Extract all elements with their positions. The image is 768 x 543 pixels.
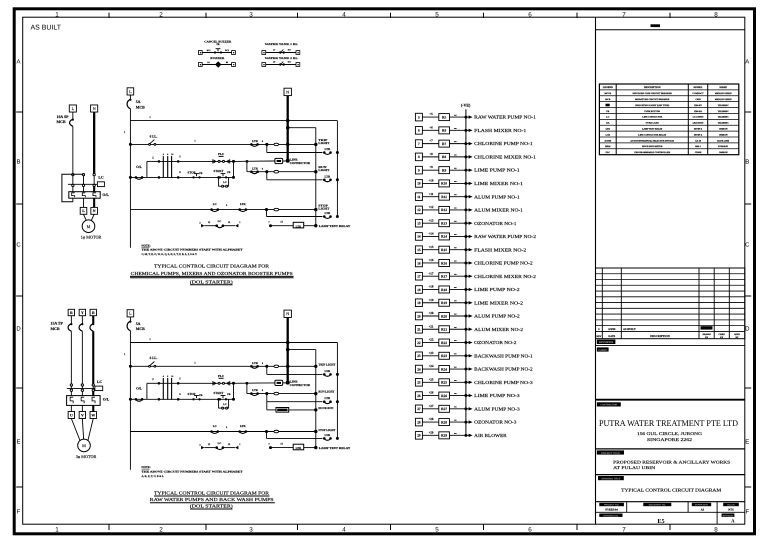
svg-text:FLASH MIXER NO-1: FLASH MIXER NO-1 [474,128,527,133]
terminal block bars [163,153,174,178]
svg-text:U: U [70,413,73,417]
LC aux contact stop light row [210,424,228,434]
svg-text:1: 1 [149,338,151,341]
control MCB 5A label [136,322,145,331]
stop lamp-test bypass wire [267,432,323,439]
svg-text:(-VE): (-VE) [461,102,471,107]
svg-text:R7: R7 [442,142,446,146]
note text [142,243,243,256]
run lamp-test bypass wire [267,172,323,180]
svg-text:15A TP: 15A TP [51,322,64,326]
LTR bypass contact run [323,174,339,181]
svg-text:HOUR RUN: HOUR RUN [318,406,334,410]
svg-text:9: 9 [226,204,228,207]
svg-text:B1: B1 [207,61,209,64]
svg-text:23: 23 [417,354,421,358]
wire PLC junction to line connector [234,160,275,163]
svg-text:MODEL: MODEL [693,86,702,89]
junction trip row [265,143,268,146]
svg-text:NOTE:: NOTE: [142,465,151,469]
svg-text:PB: PB [199,394,203,397]
svg-text:7: 7 [418,142,420,146]
run light [314,390,334,396]
svg-text:SINGAPORE 2262: SINGAPORE 2262 [647,437,692,442]
svg-text:R10: R10 [441,182,447,186]
svg-text:+6: +6 [429,125,433,129]
motor terminal box V [79,412,85,419]
svg-text:18: 18 [417,288,421,292]
svg-text:CONNECTOR: CONNECTOR [290,161,311,165]
contactor LC main contacts 3 poles [67,384,95,392]
grid reference numbers bottom [55,524,718,533]
svg-text:10: 10 [417,182,421,186]
svg-text:PROJECT TITLE: PROJECT TITLE [601,452,620,455]
trip lamp-test bypass wire [267,366,323,374]
svg-text:OVER LOAD: OVER LOAD [646,122,660,125]
svg-text:MCB: MCB [605,98,611,101]
terminal oval run row [274,392,279,395]
svg-text:LIME PUMP NO-2: LIME PUMP NO-2 [474,287,520,292]
power circuit 3-phase: terminal Y [79,309,85,315]
run row wire [247,161,316,171]
svg-text:A: A [16,58,20,65]
contactor coil LC (3ph) [95,380,103,391]
svg-text:REV: REV [596,335,601,338]
svg-text:9: 9 [418,168,420,172]
neutral drop wire (thick) [286,96,290,161]
svg-text:M: M [87,224,91,229]
control supply terminal L [127,88,134,95]
svg-text:R8: R8 [442,155,446,159]
svg-text:17: 17 [417,275,421,279]
svg-text:+18: +18 [428,285,433,289]
svg-text:PB: PB [216,43,219,46]
revisions label [596,340,745,346]
svg-text:MCB: MCB [136,105,145,109]
svg-text:LAMP TEST RELAY: LAMP TEST RELAY [319,224,352,228]
svg-text:DOCUMENT NO.: DOCUMENT NO. [649,504,667,507]
svg-text:BACKWASH PUMP NO-1: BACKWASH PUMP NO-1 [474,353,533,358]
svg-text:PROGRAMMABLE CONTROLLER: PROGRAMMABLE CONTROLLER [634,151,670,154]
MCB Q2 arcs on R Y B lines [68,323,94,331]
relay output R28 OZONATOR NO-3 [415,417,517,426]
svg-text:N: N [93,106,96,111]
LTR bypass contact trip [323,369,339,376]
svg-text:C200H: C200H [695,151,702,154]
svg-text:+26: +26 [428,391,433,395]
svg-text:6: 6 [262,140,264,143]
svg-text:BACKWASH PUMP NO-2: BACKWASH PUMP NO-2 [474,367,533,372]
svg-text:BY: BY [705,336,708,339]
svg-text:LC: LC [213,202,217,206]
svg-text:97/RES/04: 97/RES/04 [605,508,618,511]
svg-text:OZONATOR NO-3: OZONATOR NO-3 [474,420,517,425]
svg-text:+9: +9 [429,165,433,169]
svg-text:R27: R27 [441,407,447,411]
svg-text:TRIP LIGHT: TRIP LIGHT [318,362,335,366]
svg-text:WATER TANK 1 EL: WATER TANK 1 EL [265,43,298,46]
terminal block bars [163,375,174,400]
stop row wire [147,393,234,401]
svg-text:DESCRIPTION: DESCRIPTION [650,335,669,338]
grid reference letters right [745,58,751,515]
svg-text:XB4-EA: XB4-EA [694,110,702,113]
svg-text:13: 13 [228,443,231,446]
svg-text:+10: +10 [428,179,433,183]
svg-text:DESCRIPTION: DESCRIPTION [644,86,661,89]
svg-text:16: 16 [417,261,421,265]
junction stop light row [265,430,268,433]
svg-text:CONTRACTOR: CONTRACTOR [600,404,617,407]
title block frame [596,17,745,524]
svg-text:PLC: PLC [606,151,611,154]
svg-text:M: M [82,443,86,448]
terminal oval trip row [274,143,279,146]
svg-text:3: 3 [249,526,253,533]
svg-text:LTR: LTR [296,225,302,228]
svg-text:O/L: O/L [606,122,610,125]
grid reference letters left [16,58,23,515]
svg-text:R5: R5 [442,115,446,119]
svg-text:6: 6 [528,526,532,533]
svg-text:6: 6 [167,375,169,378]
neutral terminal N [284,88,291,95]
junction stop light row [265,208,268,211]
svg-text:O/L: O/L [102,193,109,197]
svg-text:SCALE: SCALE [727,504,735,507]
svg-text:A3: A3 [701,508,705,511]
svg-text:7: 7 [268,443,270,446]
svg-text:MY4N-2: MY4N-2 [694,133,702,136]
svg-text:5A: 5A [136,100,141,104]
hour run meter row [267,402,334,412]
stop push button [187,392,202,400]
svg-text:L: L [72,106,75,111]
svg-text:6: 6 [262,389,264,392]
company name [599,418,738,442]
svg-text:BY: BY [735,336,738,339]
svg-text:O/L: O/L [103,397,110,401]
svg-text:6: 6 [262,362,264,365]
svg-text:CHLORINE MIXER NO-2: CHLORINE MIXER NO-2 [474,274,537,279]
MCB Q1 10A SP label [57,115,70,124]
svg-text:+13: +13 [428,218,433,222]
power circuit 3-phase: terminal R [68,309,74,315]
svg-text:PLC: PLC [218,152,224,156]
svg-text:R26: R26 [441,394,447,398]
terminal oval trip row [274,365,279,368]
svg-text:PAPER SIZE: PAPER SIZE [695,504,708,507]
lamp test relay wiring flags [199,442,241,450]
svg-text:+19: +19 [428,298,433,302]
line connector coil LC [275,158,311,165]
lamp bus feeder wire [288,350,316,448]
relay output R8 CHLORINE MIXER NO-1 [415,152,536,161]
svg-text:C: C [16,241,21,248]
terminal oval stop light row [274,430,279,433]
motor M1 1-phase [82,214,95,232]
trip lamp-test bypass wire [267,144,323,152]
svg-text:MCB: MCB [136,327,145,331]
trip light [314,138,329,146]
relay output R6 FLASH MIXER NO-1 [415,125,527,134]
svg-text:LC: LC [606,116,609,119]
control MCB arc [127,99,130,109]
svg-text:R16: R16 [441,261,447,265]
svg-text:+16: +16 [428,258,433,262]
relay output R20 ALUM PUMP NO-2 [415,311,520,320]
svg-text:+14: +14 [428,232,433,236]
svg-text:24: 24 [417,367,421,371]
svg-text:Y: Y [81,311,84,315]
relay output R29 AIR BLOWER [415,430,507,439]
svg-text:TELEMEC: TELEMEC [718,116,729,119]
stop light [314,428,335,433]
LTR contact on trip row [250,139,264,146]
svg-text:REVISION: REVISION [723,514,734,517]
relay output R26 LIME PUMP NO-3 [415,391,520,400]
svg-text:B: B [92,311,95,315]
svg-text:20: 20 [417,314,421,318]
PLC output contacts [213,374,230,385]
contactor coil LC [97,175,104,186]
LTR bypass contact trip [323,147,339,154]
wire pole2 to motor terminal L [83,198,85,207]
svg-text:156 GUL CIRCLE, JURONG: 156 GUL CIRCLE, JURONG [637,431,702,436]
svg-text:5: 5 [435,526,439,533]
svg-text:B: B [745,158,749,165]
svg-text:B: B [16,158,20,165]
svg-text:R11: R11 [441,195,447,199]
svg-text:NTS: NTS [728,508,734,511]
svg-text:NOTE:: NOTE: [142,243,151,247]
svg-text:6: 6 [262,167,264,170]
svg-text:LTR: LTR [252,361,259,365]
riser to PLC row [147,378,159,399]
svg-text:AIR BLOWER: AIR BLOWER [474,433,508,438]
svg-text:8: 8 [418,155,420,159]
LTR contact run row [250,166,264,173]
svg-text:LTR: LTR [240,424,247,428]
svg-text:R17: R17 [441,275,447,279]
svg-text:BY: BY [720,336,723,339]
run light [314,165,329,173]
svg-text:TELEMEC: TELEMEC [718,104,729,107]
svg-text:OZONATOR NO-1: OZONATOR NO-1 [474,221,517,226]
svg-text:4: 4 [342,526,346,533]
overload relay O/L box [69,192,110,199]
svg-text:MCCB: MCCB [604,92,611,95]
svg-text:+23: +23 [428,351,433,355]
svg-text:MOULDED CASE CIRCUIT BREAKER: MOULDED CASE CIRCUIT BREAKER [633,92,673,95]
svg-text:A/O/M: A/O/M [605,139,612,142]
top rail wire [130,338,337,343]
relay output R11 ALUM PUMP NO-1 [415,192,520,201]
svg-text:R22: R22 [441,341,447,345]
svg-text:OMRON: OMRON [719,127,728,130]
drawing title section [596,475,745,493]
power circuit 1-phase: terminal L [69,105,76,112]
svg-text:B2: B2 [226,61,228,64]
svg-text:+28: +28 [428,417,433,421]
svg-text:OZONATOR NO-2: OZONATOR NO-2 [474,340,517,345]
PLC row wire [158,155,234,162]
svg-text:F: F [17,508,21,515]
svg-text:CHKD: CHKD [718,333,725,336]
LTR contact run row [250,388,264,395]
project title section [596,449,745,470]
svg-text:FLASH MIXER NO-2: FLASH MIXER NO-2 [474,247,527,252]
svg-text:LR2-D1305: LR2-D1305 [693,122,705,125]
PLC row wire [158,377,234,384]
svg-text:LTR: LTR [606,127,611,130]
LTR bypass contact stop [323,211,339,218]
svg-text:ALUM PUMP NO-2: ALUM PUMP NO-2 [474,314,520,319]
svg-text:COMPACT: COMPACT [692,92,704,95]
overload aux contact O/L [129,387,147,402]
terminal oval stop light row [274,208,279,211]
svg-text:OMRON: OMRON [719,151,728,154]
relay output R27 ALUM PUMP NO-3 [415,404,520,413]
svg-text:LIGHT: LIGHT [318,206,329,210]
svg-text:CHLORINE PUMP NO-1: CHLORINE PUMP NO-1 [474,141,533,146]
junction PLC/start [232,382,235,401]
svg-text:F: F [745,508,749,515]
svg-text:OMRON: OMRON [719,133,728,136]
svg-text:27: 27 [417,407,421,411]
svg-text:6: 6 [167,153,169,156]
svg-text:29: 29 [273,60,275,63]
terminal oval run row [274,170,279,173]
svg-text:THE ABOVE CIRCUIT NUMBERS STAR: THE ABOVE CIRCUIT NUMBERS START WITH ALP… [142,249,243,252]
svg-text:MERLIN GERIN: MERLIN GERIN [715,98,732,101]
svg-text:PLC: PLC [218,374,224,378]
svg-text:CA-10: CA-10 [695,139,702,142]
motor terminal box W [90,412,96,419]
trip row wire [129,365,316,368]
buzzer circuit [198,57,235,68]
lamp test relay coil LTR [268,443,351,451]
svg-text:PROPOSED RESERVOIR & ANCILLARY: PROPOSED RESERVOIR & ANCILLARY WORKS [613,459,731,464]
svg-text:5A: 5A [136,322,141,326]
top rail wire [130,116,337,121]
bottom circuit title [150,490,275,509]
svg-text:1: 1 [239,443,241,446]
svg-text:AS BUILT: AS BUILT [623,328,636,331]
relay output R16 CHLORINE PUMP NO-2 [415,258,533,267]
stop light row wire [130,431,315,433]
svg-text:1: 1 [124,131,126,134]
svg-text:1: 1 [194,140,196,143]
svg-text:BUZZER: BUZZER [210,57,224,60]
svg-text:E: E [745,438,749,445]
riser to PLC row [147,156,159,177]
overload aux contact O/L [129,165,147,180]
svg-text:STOP: STOP [187,170,195,174]
svg-text:9: 9 [226,426,228,429]
legend table [599,84,738,155]
svg-text:LIGHT: LIGHT [318,168,329,172]
svg-text:3: 3 [249,12,253,19]
svg-text:2: 2 [159,526,163,533]
trip light [314,362,335,368]
relay output R14 RAW WATER PUMP NO-2 [415,232,536,241]
trip row wire [129,143,316,146]
svg-text:R19: R19 [441,301,447,305]
svg-text:ALUM PUMP NO-1: ALUM PUMP NO-1 [474,194,520,199]
svg-text:LTR: LTR [325,211,332,215]
motor terminal box U [68,412,74,419]
water tank 1 level switch circuit [262,43,300,54]
svg-text:(DOL STARTER): (DOL STARTER) [190,504,234,509]
svg-text:RUN LIGHT: RUN LIGHT [318,390,334,394]
svg-text:1: 1 [124,353,126,356]
svg-text:STOP: STOP [187,392,195,396]
contactor LC main contacts (3 poles) [68,173,97,186]
svg-text:NO: NO [288,48,291,51]
svg-text:21: 21 [417,328,421,332]
svg-text:RAW WATER PUMPS AND BACK WASH: RAW WATER PUMPS AND BACK WASH PUMPS [150,497,275,502]
svg-text:10: 10 [171,153,174,156]
relay output R21 ALUM MIXER NO-2 [415,324,523,333]
svg-text:LINE CONTACTOR: LINE CONTACTOR [642,116,662,119]
svg-text:13: 13 [280,221,283,224]
svg-text:15: 15 [417,248,421,252]
svg-text:REVISIONS: REVISIONS [599,341,613,344]
start push button [214,169,231,179]
lamp bus feeder wire [288,128,316,226]
motor terminal box N [91,207,98,214]
svg-text:5: 5 [179,377,181,380]
svg-text:1: 1 [194,361,196,364]
svg-text:3φ MOTOR: 3φ MOTOR [76,454,97,459]
svg-text:LIME MIXER NO-1: LIME MIXER NO-1 [474,181,524,186]
svg-text:HOUR RUN METER: HOUR RUN METER [642,145,663,148]
svg-text:TELEMEC: TELEMEC [718,122,729,125]
svg-text:5: 5 [435,12,439,19]
svg-text:2: 2 [199,222,201,225]
power circuit 3-phase: terminal B [90,309,96,315]
svg-text:START: START [214,391,225,395]
svg-text:+17: +17 [428,271,433,275]
power circuit 1-phase: terminal N [91,105,98,112]
svg-text:PUTRA WATER TREATMENT PTE LTD: PUTRA WATER TREATMENT PTE LTD [599,418,738,428]
svg-text:6: 6 [179,393,181,396]
LC hold-in contact branch [219,399,229,409]
svg-text:AUTO/OFF/MANUAL SELECTOR SWITC: AUTO/OFF/MANUAL SELECTOR SWITCH [630,139,674,142]
svg-text:R21: R21 [441,328,447,332]
svg-text:RAW WATER PUMP NO-2: RAW WATER PUMP NO-2 [474,234,537,239]
svg-text:D: D [745,325,750,332]
left control bus wire [124,317,130,470]
cancel buzzer circuit [198,40,235,54]
relay output R19 LIME MIXER NO-2 [415,298,523,307]
junction trip row [265,365,268,368]
svg-text:CLIENT:: CLIENT: [598,349,607,352]
svg-text:8: 8 [714,12,718,19]
start push button [214,391,231,401]
svg-text:+8: +8 [429,152,433,156]
svg-text:E5: E5 [657,518,664,525]
svg-text:LTR: LTR [325,433,332,437]
svg-text:25: 25 [417,381,421,385]
LTR bypass contact stop [323,433,339,440]
svg-text:(DOL STARTER): (DOL STARTER) [190,279,234,284]
svg-text:R29: R29 [441,434,447,438]
relay output R12 ALUM MIXER NO-1 [415,205,523,214]
svg-text:C45N: C45N [695,98,701,101]
wires contactor to O/L [73,186,94,191]
